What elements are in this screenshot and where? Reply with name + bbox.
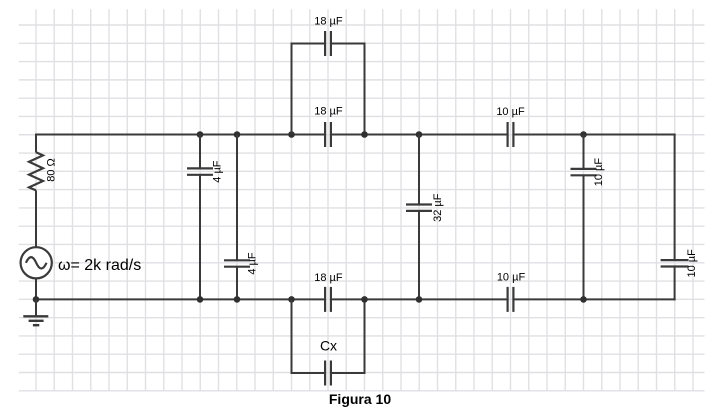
svg-text:10 µF: 10 µF: [686, 249, 698, 278]
svg-text:10 µF: 10 µF: [593, 158, 605, 187]
capacitor C_18uF_bridge: [325, 31, 331, 56]
node top rail x=200: [197, 131, 204, 138]
wire branch x=200 lower: [199, 175, 201, 300]
wire top bridge left leg: [291, 43, 293, 135]
node bottom rail x=237: [234, 296, 241, 303]
wire branch x=583.5 lower: [583, 175, 585, 299]
resistor 80 Ohm: [29, 152, 43, 190]
svg-text:80 Ω: 80 Ω: [46, 158, 58, 182]
svg-text:Cx: Cx: [320, 338, 337, 354]
node bottom-left junction: [33, 296, 40, 303]
capacitor Cx: [325, 361, 331, 386]
capacitor C_32uF: [406, 205, 432, 211]
node bottom rail x=583.5: [580, 296, 587, 303]
svg-text:18 µF: 18 µF: [314, 272, 343, 284]
capacitor C_10uF_top_rail: [508, 122, 514, 147]
node top rail x=419: [416, 131, 423, 138]
wire top rail middle segment: [331, 134, 508, 136]
ground: [23, 316, 48, 325]
node top rail x=237: [234, 131, 241, 138]
wire right branch upper: [674, 134, 676, 261]
capacitor C_4uF_1: [187, 168, 213, 174]
wire bottom rail left segment: [35, 298, 325, 300]
capacitor C_10uF_right: [661, 260, 689, 266]
wire branch x=419 lower: [418, 211, 420, 300]
svg-text:10 µF: 10 µF: [497, 272, 526, 284]
wire bottom bridge right leg: [364, 299, 366, 374]
wire branch x=237 lower: [236, 267, 238, 300]
svg-text:18 µF: 18 µF: [314, 16, 343, 28]
node bottom rail x=200: [197, 296, 204, 303]
node bottom rail x=419: [416, 296, 423, 303]
wire bottom rail right segment: [513, 298, 675, 300]
wire source to bottom node: [35, 278, 37, 299]
node top rail x=583.5: [580, 131, 587, 138]
svg-text:ω= 2k rad/s: ω= 2k rad/s: [58, 257, 141, 274]
wire left branch upper: [35, 134, 37, 153]
wire top bridge right horizontal: [331, 43, 365, 45]
node bottom rail x=291.5: [288, 296, 295, 303]
wire ground stub: [35, 299, 37, 316]
capacitor C_10uF_mid: [571, 169, 597, 175]
wire top bridge left horizontal: [292, 43, 326, 45]
wire branch x=200 upper: [199, 135, 201, 169]
svg-text:32 µF: 32 µF: [432, 193, 444, 222]
svg-text:18 µF: 18 µF: [314, 106, 343, 118]
wire bottom rail middle segment: [331, 298, 508, 300]
svg-text:4 µF: 4 µF: [247, 252, 259, 275]
wire resistor to source: [35, 190, 37, 247]
capacitor C_10uF_bottom_rail: [508, 287, 514, 312]
svg-text:Figura 10: Figura 10: [329, 391, 391, 407]
wire top rail left segment: [35, 134, 325, 136]
wire bottom bridge right horizontal: [331, 372, 365, 374]
capacitor C_18uF_top_rail: [325, 122, 331, 147]
node bottom rail x=364.5: [361, 296, 368, 303]
wire top rail right segment: [513, 134, 675, 136]
wire bottom bridge left horizontal: [292, 372, 326, 374]
ac source: [21, 247, 52, 278]
wire top bridge right leg: [364, 43, 366, 135]
svg-text:10 µF: 10 µF: [496, 106, 525, 118]
wire right branch lower: [674, 267, 676, 301]
capacitor C_4uF_2: [224, 260, 250, 266]
node top rail x=364.5: [361, 131, 368, 138]
wire branch x=237 upper: [236, 135, 238, 261]
capacitor C_18uF_bottom_rail: [325, 287, 331, 312]
wire branch x=583.5 upper: [583, 135, 585, 169]
wire bottom bridge left leg: [291, 299, 293, 374]
wire branch x=419 upper: [418, 135, 420, 205]
node top rail x=291.5: [288, 131, 295, 138]
svg-text:4 µF: 4 µF: [212, 160, 224, 183]
